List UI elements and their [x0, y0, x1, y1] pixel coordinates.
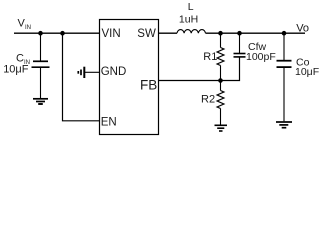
- op IC U1 box: [100, 20, 159, 135]
- label CIN: [16, 53, 30, 66]
- wire: FB node to R2: [220, 81, 222, 91]
- wire: FB pin to feedback node and up to Cfw: [159, 57, 240, 80]
- capacitor Co: [277, 61, 292, 67]
- svg-text:Vo: Vo: [296, 23, 309, 35]
- ground (GND pin, sideways): [78, 67, 84, 78]
- inductor L1: [177, 30, 205, 34]
- wire: input rail to Cin top plate: [40, 33, 42, 60]
- wire: EN branch (down and right into EN pin): [63, 33, 100, 121]
- capacitor Cfw: [234, 54, 246, 57]
- wire: GND pin stub: [85, 71, 99, 73]
- svg-text:10μF: 10μF: [3, 63, 29, 75]
- wire: R2 to ground: [220, 109, 222, 125]
- node: junction of EN branch and input rail: [60, 31, 65, 36]
- svg-text:100pF: 100pF: [246, 51, 276, 63]
- label VIN net: [18, 18, 32, 31]
- svg-text:EN: EN: [101, 116, 117, 128]
- node: junction of Cfw and output rail: [237, 31, 242, 36]
- svg-text:GND: GND: [101, 66, 127, 78]
- wire: Cin bottom plate to ground: [40, 67, 42, 98]
- wire: R1 to FB node: [220, 66, 222, 81]
- svg-text:FB: FB: [140, 77, 157, 92]
- wire: output rail to R1: [220, 33, 222, 47]
- wire: inductor to output rail: [206, 32, 306, 34]
- svg-text:IN: IN: [25, 25, 31, 31]
- node: junction of R1 and output rail: [218, 31, 223, 36]
- capacitor CIN: [32, 61, 50, 67]
- resistor R1: [217, 48, 224, 66]
- wire: output rail to Co top plate: [283, 33, 285, 60]
- ground (Cin): [33, 99, 48, 104]
- wire: VIN input rail: [14, 32, 99, 34]
- wire: output rail to Cfw top plate: [239, 33, 241, 53]
- wire: Co bottom plate to ground: [283, 67, 285, 121]
- node: junction of Co and output rail: [282, 31, 287, 36]
- ground (Co): [276, 122, 292, 128]
- svg-text:SW: SW: [137, 28, 156, 40]
- ground (R2): [215, 125, 228, 131]
- svg-text:R2: R2: [201, 94, 215, 106]
- svg-text:L: L: [188, 1, 194, 13]
- svg-text:10μF: 10μF: [295, 66, 319, 78]
- node: junction of Cin and input rail: [38, 31, 43, 36]
- svg-text:1uH: 1uH: [179, 14, 198, 26]
- resistor R2: [217, 91, 224, 109]
- svg-text:R1: R1: [203, 51, 217, 63]
- node: FB junction: [218, 78, 223, 83]
- wire: SW pin to inductor: [159, 32, 178, 34]
- svg-text:VIN: VIN: [102, 28, 121, 40]
